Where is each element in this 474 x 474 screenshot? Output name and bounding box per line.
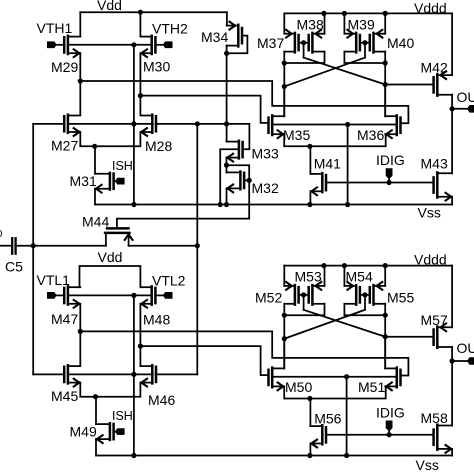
- wire cross diagonal left bottom: [304, 310, 386, 337]
- power rail Vddd (top-right): [284, 12, 452, 14]
- input terminal VTL2: [163, 292, 173, 299]
- node bulk junction bottom pair: [131, 293, 136, 298]
- node M44-FB junction: [195, 243, 200, 248]
- wire left gate stub bottom: [303, 295, 305, 310]
- wire M33 gate stub: [242, 148, 244, 150]
- wire Y2 to M35 gate: [140, 96, 268, 123]
- svg-text:M34: M34: [201, 29, 228, 45]
- wire bulk drop to Vss: [347, 125, 349, 205]
- node OUT (bottom): [450, 358, 455, 363]
- transistor M28: [151, 115, 154, 133]
- power rail Vdd (bottom bridge): [80, 266, 141, 287]
- wire M41 source to Vss: [309, 191, 311, 204]
- wire M53 source to Vddd: [324, 266, 326, 286]
- transistor M37: [294, 33, 297, 53]
- wire M27 source to tail: [80, 132, 140, 146]
- svg-text:M54: M54: [346, 269, 373, 285]
- node bulk to Vss: [131, 202, 136, 207]
- wire bulk drop to Vss bottom: [346, 377, 348, 456]
- wire M27 gate to C5 node: [33, 123, 64, 125]
- node M56 source on Vss: [307, 453, 312, 458]
- wire M33 source down: [226, 158, 228, 166]
- node C5 junction: [31, 243, 36, 248]
- wire M45 source to tail: [80, 383, 140, 397]
- wire right gate stub bottom: [364, 295, 366, 310]
- svg-text:Vdd: Vdd: [97, 0, 122, 13]
- wire IDIG stem: [388, 179, 390, 182]
- wire M50 source to tail: [284, 386, 386, 398]
- wire M52 source to Vddd: [283, 266, 285, 286]
- svg-text:OUT: OUT: [457, 89, 474, 105]
- svg-text:M48: M48: [143, 312, 170, 328]
- node gate link right bottom: [362, 292, 367, 297]
- wire M33 source to M32 gate: [227, 165, 250, 180]
- svg-text:0: 0: [0, 228, 3, 240]
- wire right output vertical: [384, 52, 386, 117]
- node Vddd-M54 junction: [342, 263, 347, 268]
- input terminal VTL1: [47, 292, 57, 299]
- transistor M34: [237, 25, 240, 47]
- node gate link left bottom: [301, 292, 306, 297]
- svg-text:OUT: OUT: [457, 340, 474, 356]
- node Vddd-M38 junction: [321, 11, 326, 16]
- wire M34 gate diode loop: [227, 36, 248, 54]
- svg-text:M55: M55: [387, 289, 414, 305]
- transistor M40: [372, 33, 375, 53]
- wire M39 drain link: [344, 52, 385, 63]
- transistor M43: [436, 173, 439, 198]
- wire right output vertical bottom: [384, 304, 386, 369]
- wire Y1b to M51 gate: [80, 331, 408, 375]
- wire M40 source to Vddd: [384, 13, 386, 33]
- svg-text:M37: M37: [257, 35, 284, 51]
- transistor M29: [67, 36, 70, 54]
- transistor M31: [109, 173, 112, 190]
- output terminal OUT (top): [467, 105, 474, 113]
- wire M33 bulk to Vss: [220, 149, 239, 204]
- wire M35 bulk line to M36: [272, 124, 397, 126]
- transistor M53: [311, 285, 314, 305]
- wire left gate stub: [303, 43, 305, 58]
- wire M42 gate line: [385, 84, 433, 86]
- wire M56 source to Vss: [309, 444, 311, 456]
- svg-text:Vdd: Vdd: [98, 249, 123, 265]
- wire M30 source down: [139, 53, 141, 114]
- svg-text:VTL2: VTL2: [152, 272, 186, 288]
- node M34 drain-gate: [224, 51, 229, 56]
- wire M42 source to Vddd: [451, 13, 453, 75]
- node Y1 takeoff: [78, 78, 83, 83]
- wire right gate stub: [364, 43, 366, 58]
- svg-text:IDIG: IDIG: [376, 404, 405, 420]
- wire M51 drain up: [384, 337, 386, 369]
- wire M57 drain down: [451, 347, 453, 361]
- svg-text:M49: M49: [70, 423, 97, 439]
- node gate link left: [301, 40, 306, 45]
- capacitor C5: [11, 238, 13, 254]
- wire gate link M52-M53: [299, 294, 309, 296]
- node bulk-M45/M46 junction: [131, 372, 136, 377]
- wire left output vertical: [283, 52, 285, 117]
- svg-text:ISH: ISH: [112, 409, 133, 423]
- node right out upper bottom: [383, 313, 388, 318]
- transistor M44 (horizontal): [105, 232, 129, 235]
- svg-text:M35: M35: [283, 127, 310, 143]
- wire gate link M54-M55: [360, 294, 370, 296]
- wire M50 drain up: [283, 339, 285, 369]
- node bulk-M27/M28 junction: [131, 121, 136, 126]
- svg-text:VTL1: VTL1: [37, 272, 71, 288]
- input terminal VTH2: [163, 41, 173, 48]
- node left out lower bottom: [282, 336, 287, 341]
- wire M49 drain up: [95, 397, 97, 424]
- svg-text:ISH: ISH: [112, 159, 133, 173]
- transistor M33: [238, 141, 241, 159]
- node bulk on Vss right: [345, 202, 350, 207]
- wire M32 drain up: [226, 165, 228, 172]
- wire M48 source down: [139, 304, 141, 366]
- node left out upper bottom: [282, 313, 287, 318]
- node IDIG junction: [387, 180, 392, 185]
- transistor M30: [150, 36, 153, 54]
- wire M42 drain down: [451, 95, 453, 109]
- wire IDIG gate line bottom: [326, 434, 433, 436]
- wire M56 drain up: [309, 399, 311, 427]
- svg-text:IDIG: IDIG: [376, 152, 405, 168]
- wire bulk link M29-M30: [68, 44, 152, 46]
- node right out lower: [383, 82, 388, 87]
- power rail Vddd (bottom-right): [284, 265, 452, 267]
- node tail-M41 junction: [307, 144, 312, 149]
- wire Y2b to M50 gate: [140, 346, 268, 375]
- svg-text:M50: M50: [285, 379, 312, 395]
- wire M29 source down: [79, 53, 81, 114]
- power rail Vss (bottom): [96, 455, 452, 457]
- wire M39 source to Vddd: [343, 13, 345, 33]
- svg-text:M46: M46: [148, 392, 175, 408]
- wire M32 source to Vss: [226, 188, 228, 204]
- transistor M42: [436, 74, 439, 95]
- svg-text:M31: M31: [70, 173, 97, 189]
- node tail-M31 junction: [92, 144, 97, 149]
- wire bulk link M47-M48: [68, 294, 152, 296]
- wire M35 source to tail: [284, 134, 386, 146]
- transistor M58: [436, 425, 439, 450]
- node left out upper: [282, 60, 287, 65]
- wire M47 source down: [79, 304, 81, 366]
- wire VTH1 to M29 gate: [57, 44, 65, 46]
- wire M43 source to Vss: [451, 197, 453, 205]
- transistor M56: [321, 425, 324, 444]
- node Y1b takeoff: [78, 329, 83, 334]
- wire M37 source to Vddd: [283, 13, 285, 33]
- wire M44 drain to FB vertical: [129, 245, 198, 247]
- node M32 source on Vss: [224, 202, 229, 207]
- wire M32 gate down to M44 gate: [117, 180, 249, 228]
- current terminal IDIG (bottom): [386, 421, 393, 432]
- svg-text:M33: M33: [252, 145, 279, 161]
- wire M57 source to Vddd: [451, 266, 453, 328]
- wire M30 drain to Vdd: [139, 12, 141, 36]
- node tail-M56 junction: [307, 396, 312, 401]
- svg-text:M56: M56: [314, 410, 341, 426]
- transistor M36: [396, 115, 399, 135]
- node bulk on Vss right bottom: [344, 453, 349, 458]
- svg-text:M38: M38: [297, 16, 324, 32]
- wire M49 source to Vss: [95, 439, 97, 455]
- wire bulk drop x134: [133, 45, 135, 205]
- node M33 source-M32 junction: [224, 163, 229, 168]
- transistor M35: [271, 115, 274, 135]
- transistor M45: [67, 365, 70, 383]
- node Vdd-M30 junction: [138, 10, 143, 15]
- node M41 source on Vss: [307, 202, 312, 207]
- node M33 bulk on Vss: [218, 202, 223, 207]
- wire M34 drain drop to FB: [226, 46, 228, 141]
- power rail Vdd (top-left): [80, 11, 227, 13]
- wire M31 source to Vss: [94, 189, 96, 205]
- input terminal ISH (bottom): [115, 428, 125, 435]
- transistor M50: [271, 368, 274, 388]
- node left out lower: [282, 84, 287, 89]
- node bulk on Vss bottom: [131, 453, 136, 458]
- wire IDIG stem bottom: [388, 431, 390, 434]
- wire M58 drain to OUT node: [451, 361, 453, 426]
- wire M57 gate line: [385, 336, 433, 338]
- wire bulk drop x134 bottom: [133, 295, 135, 455]
- wire M55 source to Vddd: [384, 266, 386, 286]
- svg-text:M43: M43: [421, 156, 448, 172]
- svg-text:Vss: Vss: [418, 205, 441, 221]
- current terminal IDIG (top): [386, 168, 393, 179]
- wire OUT lead: [452, 108, 467, 110]
- transistor M38: [311, 33, 314, 53]
- wire ISH to M49 gate: [114, 431, 115, 433]
- transistor M52: [294, 285, 297, 305]
- svg-text:M40: M40: [387, 35, 414, 51]
- wire feedback vertical x33: [32, 124, 34, 375]
- svg-text:M28: M28: [145, 138, 172, 154]
- transistor M51: [396, 368, 399, 388]
- svg-text:M41: M41: [314, 156, 341, 172]
- svg-text:M47: M47: [51, 311, 78, 327]
- transistor M54: [355, 285, 358, 305]
- svg-text:M45: M45: [51, 388, 78, 404]
- wire ISH to M31 gate: [114, 180, 115, 182]
- transistor M47: [67, 286, 70, 304]
- svg-text:Vddd: Vddd: [414, 0, 447, 16]
- transistor M57: [436, 327, 439, 348]
- wire Vdd rail into M34 source: [226, 12, 228, 25]
- wire M43 drain to OUT node: [451, 109, 453, 174]
- wire cross diagonal right bottom: [284, 310, 365, 339]
- wire cross-couple diagonal left-to-right: [304, 58, 386, 85]
- wire C5 to node: [16, 245, 106, 247]
- node gate link right: [362, 40, 367, 45]
- svg-text:M29: M29: [51, 59, 78, 75]
- svg-text:M44: M44: [82, 214, 109, 230]
- wire M45 gate to C5 node: [33, 373, 64, 375]
- wire left output vertical bottom: [283, 304, 285, 369]
- wire VTL1 to M47 gate: [57, 294, 65, 296]
- wire M35 drain up: [283, 87, 285, 117]
- wire M29 drain to Vdd: [79, 12, 81, 36]
- wire M46 gate to FB vertical: [155, 373, 197, 375]
- input terminal ISH: [115, 178, 125, 185]
- transistor M49: [109, 423, 112, 440]
- transistor M46: [151, 365, 154, 383]
- input terminal VTH1: [47, 41, 57, 48]
- node FB-M44 branch: [195, 121, 200, 126]
- svg-text:Vss: Vss: [416, 457, 439, 473]
- svg-text:C5: C5: [5, 259, 23, 275]
- wire FB vertical x197: [196, 124, 198, 375]
- node Vddd-M40 junction: [383, 11, 388, 16]
- output terminal OUT (bottom): [467, 357, 474, 365]
- wire bulk link M27-M28: [68, 123, 152, 125]
- wire M28 gate feedback line: [155, 124, 249, 149]
- svg-text:M36: M36: [357, 127, 384, 143]
- svg-text:M27: M27: [51, 137, 78, 153]
- transistor M55: [372, 285, 375, 305]
- svg-text:M51: M51: [358, 379, 385, 395]
- node Vddd-M55 junction: [383, 263, 388, 268]
- svg-text:M57: M57: [421, 312, 448, 328]
- node right out lower bottom: [383, 334, 388, 339]
- wire cross-couple diagonal right-to-left: [284, 58, 365, 87]
- svg-text:VTH1: VTH1: [37, 20, 73, 36]
- wire M41 drain up: [309, 146, 311, 174]
- wire M58 source to Vss: [451, 449, 453, 456]
- svg-text:M30: M30: [143, 58, 170, 74]
- wire gate link M37-M38: [299, 42, 309, 44]
- wire input 0 lead: [0, 245, 12, 247]
- svg-text:M58: M58: [421, 410, 448, 426]
- transistor M41: [321, 173, 324, 192]
- wire M53 drain link: [284, 304, 324, 315]
- wire VTL2 to M48 gate: [155, 294, 163, 296]
- node FB-M34 branch: [224, 121, 229, 126]
- svg-text:VTH2: VTH2: [152, 21, 188, 37]
- wire OUT lead bottom: [452, 360, 467, 362]
- power rail Vss (top): [95, 204, 452, 206]
- transistor M48: [150, 286, 153, 304]
- wire M54 drain link: [344, 304, 385, 315]
- transistor M27: [67, 115, 70, 133]
- node right out upper: [383, 60, 388, 65]
- wire M38 drain link: [284, 52, 324, 63]
- node Vddd-M53 junction: [321, 263, 326, 268]
- wire IDIG gate line: [326, 182, 433, 184]
- wire M54 source to Vddd: [343, 266, 345, 286]
- wire M31 drain up: [94, 146, 96, 173]
- wire VTH2 to M30 gate: [155, 44, 163, 46]
- wire M36 drain up: [384, 85, 386, 117]
- node Vddd-M39 junction: [342, 11, 347, 16]
- node bulk junction top pair: [131, 42, 136, 47]
- svg-text:M52: M52: [255, 289, 282, 305]
- wire Y1 to M36 gate: [80, 81, 408, 123]
- node IDIG junction bottom: [387, 432, 392, 437]
- svg-text:M42: M42: [421, 60, 448, 76]
- node Y2b takeoff: [138, 344, 143, 349]
- transistor M39: [355, 33, 358, 53]
- node OUT (top): [450, 106, 455, 111]
- wire M50 bulk line to M51: [272, 376, 397, 378]
- svg-text:M39: M39: [348, 16, 375, 32]
- wire M38 source to Vddd: [324, 13, 326, 33]
- node bulk drop right: [345, 122, 350, 127]
- node Y2 takeoff: [138, 93, 143, 98]
- svg-text:M32: M32: [252, 180, 279, 196]
- wire bulk link M45-M46: [68, 373, 152, 375]
- wire gate link M39-M40: [360, 42, 370, 44]
- svg-text:Vddd: Vddd: [414, 252, 447, 268]
- node tail-M49 junction: [93, 394, 98, 399]
- transistor M32: [239, 172, 242, 190]
- svg-text:M53: M53: [295, 269, 322, 285]
- node M32 gate junction: [247, 178, 252, 183]
- node bulk drop right bottom: [344, 374, 349, 379]
